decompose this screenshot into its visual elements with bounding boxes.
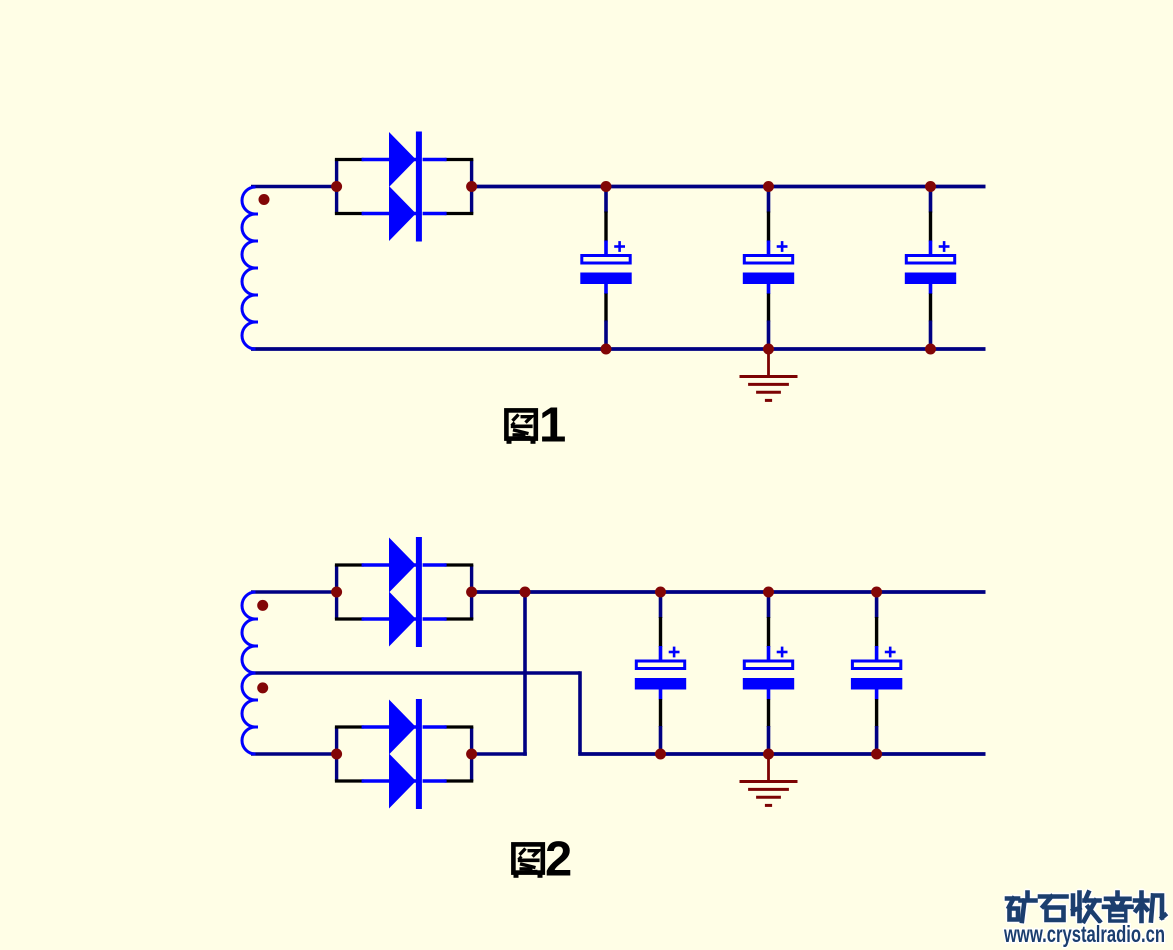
svg-text:2: 2 [545,833,572,887]
svg-text:www.crystalradio.cn: www.crystalradio.cn [1003,921,1165,947]
svg-text:1: 1 [539,399,566,453]
